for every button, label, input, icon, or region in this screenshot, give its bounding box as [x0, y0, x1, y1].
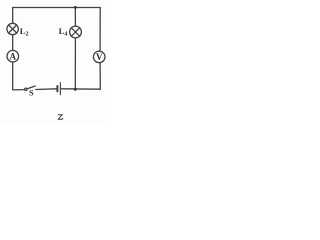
wire right vertical upper (top corner to voltmeter): [99, 8, 101, 51]
wire bottom left (corner to switch): [13, 89, 25, 91]
battery: [57, 83, 60, 95]
svg-text:A: A: [10, 51, 17, 61]
wire middle branch upper (junction to lamp L4): [74, 7, 76, 26]
wire battery to bottom right corner: [61, 88, 100, 90]
junction node top: [74, 6, 77, 9]
wire left vertical lower (ammeter to bottom corner): [12, 62, 14, 90]
voltmeter V: [93, 51, 105, 63]
ammeter A: [7, 50, 19, 62]
lamp L4: [70, 26, 82, 38]
wire right vertical lower (voltmeter to bottom corner): [99, 63, 101, 89]
lamp L2: [7, 23, 18, 34]
label 乙 (figure caption, drawn as path): [58, 115, 63, 120]
switch S: [25, 86, 36, 91]
junction node bottom: [74, 88, 77, 91]
wire top horizontal: [13, 7, 101, 9]
svg-text:V: V: [96, 52, 103, 62]
wire switch to battery: [36, 88, 57, 91]
wire left vertical upper (top corner to lamp L2): [12, 8, 14, 24]
svg-text:S: S: [29, 89, 34, 98]
wire middle branch lower (lamp L4 to bottom junction): [74, 38, 76, 89]
wire left vertical between L2 and ammeter: [12, 35, 14, 51]
